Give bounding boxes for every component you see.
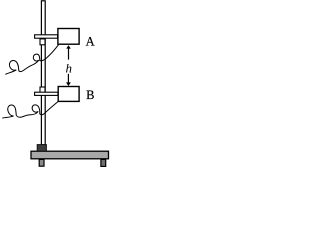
dimension arrow down (to box B): [67, 74, 69, 83]
base bar: [31, 151, 109, 159]
svg-text:B: B: [86, 88, 94, 102]
base clamp block: [37, 145, 46, 152]
clamp knob B: [40, 87, 45, 93]
clamp bar A: [35, 35, 58, 38]
dimension arrow up (to box A): [68, 47, 70, 60]
base foot right: [101, 159, 106, 166]
box A: [58, 29, 79, 45]
svg-text:A: A: [86, 35, 95, 49]
box B: [58, 87, 79, 102]
base foot left: [39, 159, 44, 166]
clamp knob A: [40, 39, 45, 45]
wire from box A: [5, 45, 58, 75]
svg-text:h: h: [66, 61, 73, 76]
wire from box B: [2, 102, 58, 118]
clamp bar B: [35, 92, 58, 95]
stand rod: [41, 1, 45, 145]
